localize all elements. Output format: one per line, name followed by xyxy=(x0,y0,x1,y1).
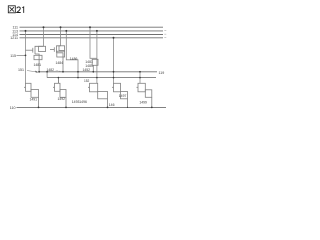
node 115 xyxy=(25,55,27,57)
bus end ticks xyxy=(164,30,166,37)
transistor A3 xyxy=(92,59,98,72)
node midline x78 xyxy=(77,71,79,73)
svg-text:146: 146 xyxy=(109,103,115,107)
node bottom B2 xyxy=(65,107,67,109)
svg-text:1452: 1452 xyxy=(83,68,91,72)
node 113-left xyxy=(25,30,27,32)
node bottom B5 xyxy=(151,107,153,109)
wire: input 115 lead xyxy=(17,54,26,56)
wire: tap L1 to A2 drain xyxy=(60,27,62,46)
svg-text:1484: 1484 xyxy=(56,61,64,65)
svg-text:152: 152 xyxy=(84,79,90,83)
svg-text:151: 151 xyxy=(18,68,24,72)
svg-text:119: 119 xyxy=(159,71,165,75)
wire: subline to B2 drain xyxy=(57,78,59,84)
node subline x113 xyxy=(113,77,115,79)
wire: tap 113 elbow to node at x78 xyxy=(66,31,78,78)
svg-text:110: 110 xyxy=(10,106,16,110)
node bottom B3 xyxy=(107,107,109,109)
node midline x47 xyxy=(46,71,48,73)
node L1-A2 xyxy=(60,26,62,28)
transistor A2 xyxy=(50,46,65,72)
node midline x140 xyxy=(139,71,141,73)
svg-text:1497: 1497 xyxy=(119,94,127,98)
wire: tap L1 to A1 drain xyxy=(43,27,45,46)
wire: tap 113 through A3 to B3 drain xyxy=(96,31,98,83)
svg-text:115: 115 xyxy=(10,54,16,58)
node L1-right xyxy=(89,26,91,28)
transistor B5 xyxy=(137,83,152,107)
node subline x97 xyxy=(96,77,98,79)
node midline x113 xyxy=(113,71,115,73)
transistor B1 xyxy=(24,83,39,107)
svg-text:1486: 1486 xyxy=(70,57,78,61)
node subline xyxy=(47,77,156,79)
node midline xyxy=(39,71,157,73)
node subline x78 xyxy=(77,77,79,79)
node midline A1 xyxy=(38,71,40,73)
bus line 111 xyxy=(20,27,164,38)
node midline A3 xyxy=(92,71,94,73)
node 113-mid xyxy=(65,30,67,32)
svg-text:1481: 1481 xyxy=(34,63,42,67)
node midline A2 xyxy=(62,71,64,73)
junction dots xyxy=(25,26,153,108)
wire: tap from 113 down-left (node to 115 and B1) xyxy=(17,27,141,83)
ground bus 110 xyxy=(17,106,167,108)
bus line 114 xyxy=(20,34,164,36)
bus line 113 xyxy=(20,30,164,32)
bus line 1211 xyxy=(20,37,164,39)
svg-text:1491: 1491 xyxy=(30,97,38,101)
transistor A1 xyxy=(26,46,46,72)
node subline B2 xyxy=(58,77,60,79)
node 113-right xyxy=(96,30,98,32)
wire: tap 1211 through midline to B4 drain xyxy=(113,38,115,84)
node L1-A1 xyxy=(43,26,45,28)
svg-text:1496: 1496 xyxy=(79,100,87,104)
wire: midline to B5 drain xyxy=(139,72,141,84)
wire: tap L1 elbow to A3 drain xyxy=(90,27,97,58)
transistor B3 xyxy=(88,83,108,107)
transistor B2 xyxy=(53,78,66,108)
svg-text:1211: 1211 xyxy=(10,36,18,40)
svg-text:1499: 1499 xyxy=(139,101,147,105)
node 1211 xyxy=(113,37,115,39)
node bottom B1 xyxy=(38,107,40,109)
title 図21 xyxy=(8,6,15,13)
node subline x140 xyxy=(139,77,141,79)
wire: midline-subline link xyxy=(46,72,48,78)
node bottom B4 xyxy=(127,107,128,108)
svg-text:1493: 1493 xyxy=(72,100,80,104)
transistor B4 xyxy=(112,83,128,107)
svg-text:1492: 1492 xyxy=(58,97,66,101)
